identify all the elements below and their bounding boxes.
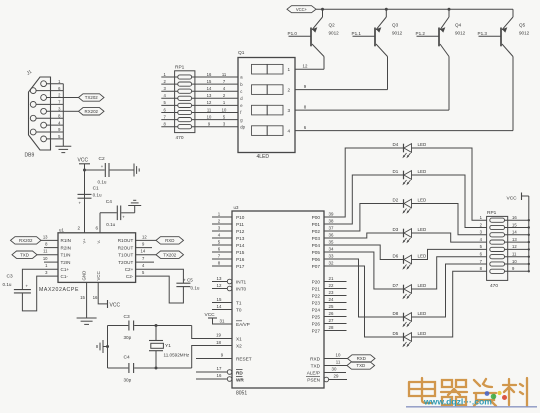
svg-text:11: 11 [336,360,341,365]
svg-text:Q2: Q2 [329,23,336,28]
svg-text:P20: P20 [312,279,321,284]
svg-text:17: 17 [217,366,222,371]
wire RP1 (right) pin 13 to VCC rail [505,241,529,243]
Q1 digit 3 cell right [267,105,283,115]
wire RX202 to R1IN pin 13 [41,239,58,241]
wire stub R2IN pin 8 [44,247,58,249]
wire U3 pin 25 (P24) stub [324,309,347,311]
LED D6 symbol [402,255,411,270]
svg-text:V-: V- [96,239,101,243]
wire DB9 pin 1 to bus [47,83,64,85]
svg-text:12: 12 [207,100,212,105]
DB9 pin circle (left col 4) [30,129,36,135]
svg-text:VCC: VCC [507,195,518,201]
node junction ground tap [106,345,109,348]
wire RP1 pin 7 stub [161,119,178,121]
transistor Q2 9012 (PNP) [289,8,325,69]
LED D7 symbol [402,285,411,300]
svg-text:16: 16 [93,295,98,300]
RP1 resistor element 5 [178,103,192,107]
svg-text:11: 11 [207,107,212,112]
svg-text:P26: P26 [312,321,321,326]
wire DB9 pin 2 to bus [47,97,64,99]
svg-text:TX202: TX202 [85,95,98,100]
node junction rail/Q2 [321,8,324,11]
svg-text:23: 23 [329,290,334,295]
svg-text:32: 32 [329,261,334,266]
RP1 (right) resistor element 2 [490,225,505,229]
svg-text:RP1: RP1 [487,210,497,216]
svg-text:LED: LED [418,227,428,232]
wire U3 pin 5 (P14) stub [212,244,232,246]
wire stub T2IN pin 10 [44,261,58,263]
svg-text:R1IN: R1IN [61,238,71,243]
net flag RX202 (to U1 R1IN) [11,237,42,244]
svg-text:36: 36 [329,233,334,238]
LED D5 symbol [402,333,411,348]
svg-text:P12: P12 [236,229,245,234]
svg-text:18: 18 [216,340,221,345]
svg-text:T2OUT: T2OUT [118,260,133,265]
net flag TX202 (DB9) [79,94,105,101]
svg-text:D6: D6 [393,253,399,258]
RP1 resistor element 1 [178,75,192,79]
wire D5 cathode to RP1 pin 8 [412,271,487,337]
wire RP1 (right) pin 16 to VCC rail [505,219,529,221]
LED D2 symbol [402,199,411,214]
wire Q5 collector [502,44,513,57]
svg-text:24: 24 [329,297,334,302]
wire Q3 emitter to rail [385,9,387,17]
net flag RX202 (DB9) [79,108,105,115]
svg-text:c: c [240,89,242,94]
svg-text:X2: X2 [236,343,242,348]
svg-text:R2OUT: R2OUT [118,245,134,250]
wire U3 pin 2 (P11) stub [212,223,232,225]
svg-text:INT1: INT1 [236,279,247,284]
U3 RD bubble [227,370,232,375]
wire P04 to D6 anode [324,245,404,260]
wire C2 left [85,169,105,171]
svg-text:2: 2 [77,226,80,231]
wire Q1 common pin 9 to Q3 collector [295,89,388,91]
resistor pack RP1 (left) body [175,71,195,133]
svg-text:VCC: VCC [110,302,121,308]
svg-text:15: 15 [217,297,222,302]
svg-text:P21: P21 [312,286,321,291]
wire Q1 common pin 6 to Q5 collector [295,130,513,132]
svg-text:34: 34 [329,247,334,252]
Q1 digit 1 cell right [267,64,283,74]
svg-text:14: 14 [141,249,146,254]
net flag TXD (U3) [347,362,375,369]
ground (DB9 shell) [62,145,64,147]
wire crystal top lead [155,326,157,341]
svg-text:38: 38 [329,219,334,224]
RP1 (right) resistor element 7 [490,262,505,266]
svg-text:13: 13 [207,93,212,98]
svg-text:T0: T0 [236,307,242,312]
Q1 digit 4 cell right [267,126,283,136]
DB9 pin bus wire [62,84,64,147]
crystal Y1 11.0592MHz [149,340,163,342]
svg-text:6: 6 [95,226,98,231]
svg-text:P06: P06 [312,257,321,262]
svg-text:12: 12 [303,64,308,69]
svg-text:0.1u: 0.1u [98,180,107,185]
svg-text:LED: LED [418,253,428,258]
svg-text:LED: LED [418,283,428,288]
RP1 resistor element 7 [178,118,192,122]
wire RP1 (right) pin 14 to VCC rail [505,234,529,236]
U3 WR bubble [227,377,232,382]
wire P06 to D8 anode [324,259,404,317]
wire Q4 collector [440,44,449,57]
svg-text:P01: P01 [312,222,321,227]
svg-text:C3: C3 [124,314,130,320]
svg-text:P14: P14 [236,243,245,248]
wire U3 pin 24 (P23) stub [324,302,347,304]
wire RP1 (right) pin 15 to VCC rail [505,227,529,229]
wire C2+ pin 4 to C5 [136,269,184,283]
wire P01 to D1 anode [324,175,404,224]
Q1 digit 3 cell left [252,105,268,115]
wire RP1 pin 8 stub [161,126,178,128]
svg-text:P1.3: P1.3 [478,31,488,36]
RP1 (right) resistor element 4 [490,240,505,244]
net flag TXD (to U1 T1IN) [12,251,37,258]
wire C1- pin 3 to C3 [22,276,58,311]
svg-text:RX202: RX202 [19,238,33,243]
capacitor C3 (30p) [128,321,130,331]
svg-text:19: 19 [216,333,221,338]
Q1 digit 1 cell left [252,64,268,74]
wire R1OUT pin 12 to RXD flag [136,239,156,241]
svg-text:RXD: RXD [165,238,174,243]
svg-text:X1: X1 [236,336,242,341]
ground (C4, flipped up) [134,206,136,213]
svg-text:16: 16 [217,373,222,378]
svg-text:RESET: RESET [236,356,252,361]
wire VCC rail (right) [528,196,530,271]
svg-text:D8: D8 [393,311,399,316]
svg-text:P22: P22 [312,293,321,298]
wire DB9 pin 4 to bus [47,124,64,126]
RP1 resistor element 2 [178,82,192,86]
node junction crystal bottom [155,367,158,370]
wire rail corner to Q5 emitter [512,9,514,17]
wire U3 pin 8 (P17) stub [212,265,232,267]
svg-text:37: 37 [329,226,334,231]
svg-text:10: 10 [512,259,517,264]
wire DB9 pin 7 to bus [36,103,63,105]
wire RP1 (right) pin 11 to VCC rail [505,256,529,258]
RP1 (right) resistor element 1 [490,218,505,222]
wire U3 pin 22 (P21) stub [324,288,347,290]
svg-text:T1: T1 [236,300,242,305]
svg-text:RXD: RXD [357,356,366,361]
U3 INT0 bubble [227,286,232,291]
wire D7 cathode to RP1 pin 6 [412,257,487,289]
svg-text:10: 10 [222,107,227,112]
svg-text:14: 14 [207,86,212,91]
wire U3 pin 28 (P27) stub [324,330,347,332]
wire pin6 to C4 [100,212,117,214]
wire DB9 pin 6 to bus [36,90,63,92]
svg-text:30: 30 [332,367,337,372]
ground (C2) [133,164,135,177]
svg-text:T1IN: T1IN [61,253,71,258]
svg-text:30p: 30p [124,335,132,340]
wire RP1 pin 1 stub [161,76,178,78]
svg-text:ALE/P: ALE/P [307,370,320,375]
svg-text:4: 4 [288,128,291,133]
wire to RX202 flag [63,110,78,112]
wire P05 to D7 anode [324,252,404,289]
svg-text:P16: P16 [236,257,245,262]
svg-text:470: 470 [490,283,498,289]
DB9 pin circle (left col 1) [30,88,36,94]
svg-text:12: 12 [142,234,147,239]
wire stub T2OUT pin 7 [136,261,154,263]
svg-text:C1: C1 [93,186,99,192]
wire U3 pin 4 (P13) stub [212,237,232,239]
svg-text:T1OUT: T1OUT [118,253,133,258]
svg-text:29: 29 [334,374,339,379]
display Q1 4LED body [238,58,295,153]
svg-text:D7: D7 [393,283,399,288]
svg-text:Q3: Q3 [392,23,399,28]
ground (U1 pin 15) [77,317,97,319]
svg-text:10: 10 [43,256,48,261]
wire D3 cathode to RP1 pin 4 [412,233,487,242]
wire DB9 pin 9 to bus [36,131,63,133]
svg-text:P23: P23 [312,300,321,305]
svg-text:P17: P17 [236,264,245,269]
svg-text:0.1u: 0.1u [93,193,102,198]
svg-text:8051: 8051 [236,391,247,397]
wire DB9 pin 8 to bus [36,117,63,119]
svg-text:0.1u: 0.1u [3,282,12,287]
svg-text:WR: WR [236,377,244,382]
svg-text:16: 16 [512,215,517,220]
svg-text:RXD: RXD [310,356,321,361]
wire C4 to ground [121,212,135,214]
svg-text:3: 3 [288,108,291,113]
svg-text:14: 14 [512,230,517,235]
net flag RXD (U1 R1OUT) [156,237,184,244]
wire RP1 pin 11 to 4LED pin 10 [192,112,238,114]
wire D1 cathode to RP1 pin 2 [412,175,487,228]
svg-text:P02: P02 [312,229,321,234]
wire C2- pin 5 to C5 [136,276,184,303]
DB9 pin circle (right col 2) [41,95,47,101]
wire RP1 pin 5 stub [161,104,178,106]
svg-text:11: 11 [512,252,517,257]
wire U3 pin 3 (P12) stub [212,230,232,232]
wire RP1 pin 9 to 4LED pin 3 [192,126,238,128]
wire RP1 pin 3 stub [161,90,178,92]
svg-text:31: 31 [220,319,225,324]
svg-text:D5: D5 [393,331,399,336]
svg-text:VCC: VCC [78,158,89,164]
svg-text:D1: D1 [393,169,399,174]
wire U3 RD pin 17 stub [196,371,227,373]
RP1 (right) resistor element 6 [490,255,505,259]
wire top (X1 side) [108,325,129,327]
wire Q4 emitter to rail [448,9,450,17]
svg-text:P24: P24 [312,307,321,312]
wire U3 ALE/P pin 30 stub [324,372,346,374]
svg-text:DB9: DB9 [25,153,35,159]
transistor Q3 9012 (PNP) [353,8,388,90]
svg-text:LED: LED [418,197,428,202]
svg-text:P13: P13 [236,236,245,241]
svg-text:33: 33 [329,254,334,259]
LED D8 symbol [402,313,411,328]
RP1 resistor element 8 [178,125,192,129]
svg-text:Y1: Y1 [165,343,171,349]
wire U3 pin 6 (P15) stub [212,251,232,253]
wire U1 pin 6 up [99,213,101,233]
svg-text:1: 1 [288,67,291,72]
DB9 pin circle (right col 4) [41,122,47,128]
svg-text:D4: D4 [393,142,399,147]
wire T1OUT pin 14 to TX202 flag [136,254,156,256]
svg-text:P11: P11 [236,222,244,227]
svg-text:TXD: TXD [311,363,321,368]
connector J1 (DB9) outline [29,77,51,150]
wire U1 GND pin 15 down [86,282,88,318]
wire Q3 collector [376,44,388,57]
wire U3 INT1 pin 13 stub [212,281,227,283]
wire RP1 (right) pin 10 to VCC rail [505,263,529,265]
wire RP1 pin 14 to 4LED pin 4 [192,90,238,92]
svg-text:VCC: VCC [96,271,101,280]
svg-text:C2: C2 [99,156,105,162]
capacitor C1 [78,193,92,195]
svg-text:P25: P25 [312,314,321,319]
svg-text:GND: GND [82,271,87,281]
svg-text:VCC+: VCC+ [296,7,308,12]
wire U3 TXD pin 11 [324,365,347,367]
wire U3 T1 pin 15 stub [212,302,232,304]
svg-text:Q1: Q1 [238,50,245,56]
svg-text:RX202: RX202 [85,109,99,114]
svg-text:P00: P00 [312,215,321,220]
wire RP1 pin 13 to 4LED pin 2 [192,97,238,99]
svg-text:14: 14 [217,304,222,309]
capacitor C4 (0.1u) [116,206,118,221]
svg-text:16: 16 [207,72,212,77]
svg-text:39: 39 [329,212,334,217]
wire U3 pin 26 (P25) stub [324,316,347,318]
DB9 pin circle (left col 3) [30,115,36,121]
svg-text:11: 11 [43,249,48,254]
svg-text:Q5: Q5 [519,23,526,28]
net flag TX202 (U1 T1OUT) [156,251,184,258]
wire to X2 pin 18 [192,346,232,369]
svg-text:C1+: C1+ [61,267,70,272]
wire TXD to T1IN pin 11 [37,254,58,256]
transistor Q4 9012 (PNP) [417,8,451,110]
Q1 digit 2 cell left [252,85,268,95]
svg-text:12: 12 [217,283,222,288]
svg-text:9012: 9012 [329,31,340,36]
wire U3 pin 27 (P26) stub [324,323,347,325]
wire C2 to ground [110,169,134,171]
power symbol VCC (U1 pin 16) [107,300,109,308]
svg-text:P03: P03 [312,236,321,241]
svg-text:26: 26 [329,311,334,316]
svg-text:0.1u: 0.1u [191,285,200,290]
wire RP1 (right) pin 12 to VCC rail [505,248,529,250]
svg-text:T2IN: T2IN [61,260,71,265]
wire stub R2OUT pin 9 [136,247,152,249]
svg-text:PSEN: PSEN [307,377,320,382]
net flag VCC+ (top rail) [287,6,316,13]
svg-text:12: 12 [512,244,517,249]
wire VCC to EA/VP pin 31 [213,318,233,324]
svg-text:C2-: C2- [126,274,134,279]
wire C4 to X2 corner [134,367,192,369]
svg-text:u1: u1 [59,227,64,232]
wire U3 pin 7 (P16) stub [212,258,232,260]
svg-text:P07: P07 [312,264,321,269]
svg-text:P27: P27 [312,328,321,333]
wire P00 to D4 anode [324,148,404,217]
svg-text:LED: LED [418,169,428,174]
svg-text:TXD: TXD [356,363,365,368]
wire crystal bottom lead [155,351,157,368]
svg-text:10: 10 [207,114,212,119]
wire U3 RESET pin 9 stub [196,358,232,360]
svg-text:u3: u3 [234,205,239,210]
svg-text:P1.0: P1.0 [288,31,298,36]
wire D4 cathode to RP1 pin 1 [412,148,487,220]
wire RP1 (right) pin 9 to VCC rail [505,270,529,272]
svg-text:www.dqzl···.com: www.dqzl···.com [423,397,492,407]
wire DB9 pin 3 to bus [47,110,64,112]
svg-text:470: 470 [176,135,184,141]
wire D6 cathode to RP1 pin 5 [412,249,487,259]
svg-text:C2+: C2+ [125,267,134,272]
RP1 (right) resistor element 3 [490,233,505,237]
svg-text:LED: LED [418,311,428,316]
svg-text:P15: P15 [236,250,245,255]
wire RP1 pin 6 stub [161,112,178,114]
svg-text:EA/VP: EA/VP [236,322,250,327]
capacitor C4 (30p) [128,363,130,373]
wire DB9 pin 5 to bus [47,138,64,140]
wire U3 pin 21 (P20) stub [324,281,347,283]
svg-text:4LED: 4LED [257,154,270,160]
svg-text:RD: RD [236,370,243,375]
watermark colored dots [485,391,490,396]
RP1 resistor element 3 [178,89,192,93]
resistor pack RP1 (right) body [487,216,508,280]
DB9 pin circle (right col 5) [41,136,47,142]
watermark underline [406,406,537,408]
svg-text:9012: 9012 [392,31,403,36]
svg-text:10: 10 [336,353,341,358]
svg-text:C4: C4 [124,355,130,361]
wire RP1 pin 4 stub [161,97,178,99]
LED D4 symbol [402,144,411,159]
node junction rail/Q3 [385,8,388,11]
svg-text:13: 13 [512,237,517,242]
svg-text:D2: D2 [393,197,399,202]
